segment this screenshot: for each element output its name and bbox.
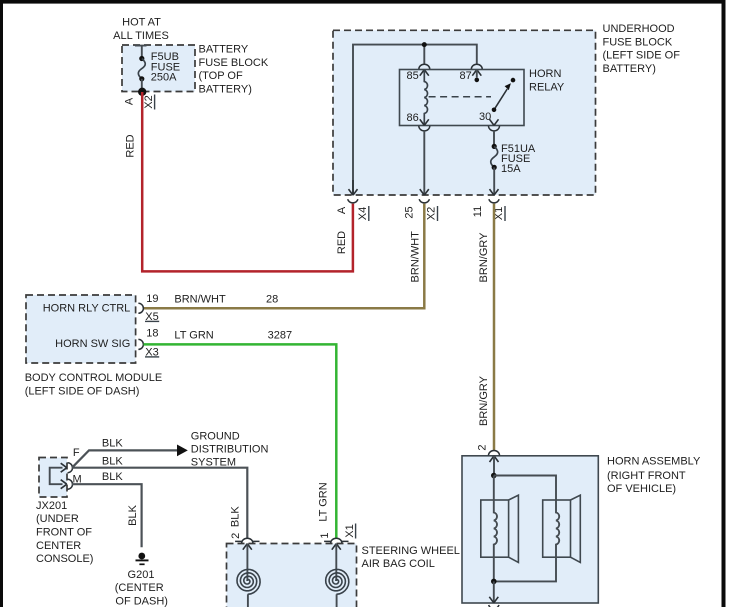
- value label F5UB FUSE 250A: [151, 51, 180, 84]
- svg-text:BRN/WHT: BRN/WHT: [409, 231, 421, 283]
- svg-text:85: 85: [407, 70, 419, 82]
- svg-text:HORN SW SIG: HORN SW SIG: [55, 338, 130, 350]
- value label F51UA FUSE 15A: [501, 143, 536, 175]
- connector cap pin 1: [324, 538, 348, 543]
- svg-text:30: 30: [479, 111, 491, 123]
- arrow pin 86 (down): [420, 119, 429, 125]
- svg-text:87: 87: [460, 70, 472, 82]
- horn 2: [497, 495, 581, 581]
- svg-text:BLK: BLK: [102, 456, 123, 468]
- svg-text:X1: X1: [344, 524, 356, 537]
- fuse F5UB: [138, 56, 145, 88]
- wire LT GRN from BCM pin 18 to air bag coil X1: [144, 344, 337, 538]
- svg-text:G201: G201: [128, 569, 155, 581]
- pin X5 label: [145, 311, 159, 323]
- junction dot bottom: [491, 579, 497, 585]
- arrow pin 1 (up): [332, 544, 341, 550]
- connector arc X3: [138, 339, 143, 349]
- battery feed terminal: [135, 46, 147, 59]
- connector cup below X4: [348, 199, 358, 203]
- svg-text:X4: X4: [357, 207, 369, 220]
- arrow exit X2 (down): [420, 189, 429, 195]
- label underhood fuse block: [603, 23, 681, 75]
- svg-text:AIR BAG COIL: AIR BAG COIL: [362, 558, 435, 570]
- arrow pin 30 (down): [490, 119, 499, 125]
- relay actuation dashed line: [429, 96, 491, 98]
- wire into coil 2: [246, 544, 248, 581]
- pin X3 label: [145, 346, 159, 358]
- connector cup below X1: [489, 199, 499, 203]
- svg-text:CONSOLE): CONSOLE): [36, 553, 93, 565]
- label STEERING WHEEL AIR BAG COIL: [362, 545, 460, 570]
- arrow pin 87: [472, 70, 481, 76]
- svg-text:BODY CONTROL MODULE: BODY CONTROL MODULE: [25, 372, 163, 384]
- svg-text:BLK: BLK: [102, 471, 123, 483]
- svg-text:HORN: HORN: [529, 68, 561, 80]
- fuse F51UA: [491, 144, 498, 195]
- arrow horn exit (down): [489, 597, 498, 603]
- svg-text:A: A: [336, 206, 348, 214]
- svg-text:HORN ASSEMBLY: HORN ASSEMBLY: [607, 455, 701, 467]
- svg-text:BRN/GRY: BRN/GRY: [478, 232, 490, 283]
- svg-text:BATTERY): BATTERY): [603, 63, 656, 75]
- pin X1 label: [344, 524, 356, 539]
- svg-text:DISTRIBUTION: DISTRIBUTION: [191, 443, 269, 455]
- connector cap pin 85: [419, 64, 430, 69]
- connector arc X5: [138, 303, 143, 313]
- svg-text:BLK: BLK: [229, 506, 241, 527]
- svg-text:BRN/WHT: BRN/WHT: [174, 293, 226, 305]
- wire BLK to G201: [72, 484, 142, 547]
- arrow exit X1 (down): [490, 189, 499, 195]
- wire below coil 1: [336, 594, 338, 607]
- svg-text:15A: 15A: [501, 163, 521, 175]
- svg-text:FUSE BLOCK: FUSE BLOCK: [199, 57, 269, 69]
- svg-text:LT GRN: LT GRN: [318, 482, 330, 521]
- relay NO contact dot: [511, 78, 516, 83]
- wire BLK to ground distribution: [72, 450, 177, 467]
- wire bus inside underhood block: [353, 45, 477, 195]
- wire BRN/GRY from X1 to horn assembly: [493, 204, 496, 451]
- frame top: [0, 0, 726, 4]
- splice bracket: [50, 468, 63, 485]
- svg-text:BLK: BLK: [102, 438, 123, 450]
- svg-text:BATTERY): BATTERY): [199, 84, 252, 96]
- frame left: [0, 0, 3, 607]
- BCM box: [26, 295, 136, 363]
- svg-text:OF DASH): OF DASH): [115, 596, 168, 607]
- wire pin 30 to fuse: [493, 130, 495, 146]
- node X2 junction dot: [138, 88, 146, 96]
- wire into coil 1: [335, 544, 337, 581]
- svg-text:X2: X2: [426, 207, 438, 220]
- label HORN RELAY: [529, 68, 565, 93]
- svg-text:(CENTER: (CENTER: [115, 582, 164, 594]
- label BODY CONTROL MODULE: [25, 372, 163, 397]
- arrow pin M: [61, 480, 67, 489]
- underhood fuse block box: [333, 30, 596, 195]
- svg-text:ALL TIMES: ALL TIMES: [113, 30, 169, 42]
- svg-text:3287: 3287: [268, 329, 292, 341]
- arrow pin 2 (up): [243, 544, 252, 550]
- wire pin 86 to X2 exit: [423, 130, 425, 194]
- frame right: [722, 0, 726, 607]
- svg-text:RELAY: RELAY: [529, 81, 565, 93]
- svg-text:HORN RLY CTRL: HORN RLY CTRL: [43, 303, 131, 315]
- horn 1: [481, 476, 519, 582]
- svg-text:STEERING WHEEL: STEERING WHEEL: [362, 545, 460, 557]
- label HOT AT ALL TIMES: [113, 17, 169, 42]
- wire BLK to air bag coil pin 2: [72, 468, 247, 539]
- connector arc F: [68, 463, 73, 473]
- svg-text:HOT AT: HOT AT: [122, 17, 161, 29]
- svg-text:JX201: JX201: [36, 500, 67, 512]
- junction dot top: [491, 473, 497, 479]
- horn assembly box: [462, 456, 598, 603]
- svg-text:(LEFT SIDE OF: (LEFT SIDE OF: [603, 50, 681, 62]
- svg-text:(RIGHT FRONT: (RIGHT FRONT: [607, 470, 686, 482]
- pin X2 label: [143, 95, 155, 110]
- coil spiral 1: [326, 569, 349, 594]
- wire RED from battery fuse block to underhood X4: [142, 92, 353, 271]
- connector cup below pin 30: [489, 126, 500, 131]
- connector cup below pin 86: [419, 126, 430, 131]
- arrow pin 85: [420, 70, 429, 76]
- svg-text:RED: RED: [336, 231, 348, 254]
- wire to ground exit: [493, 581, 495, 602]
- svg-text:(UNDER: (UNDER: [36, 513, 79, 525]
- svg-text:(TOP OF: (TOP OF: [199, 70, 243, 82]
- svg-text:FUSE BLOCK: FUSE BLOCK: [603, 36, 673, 48]
- svg-text:F: F: [73, 447, 80, 459]
- svg-text:19: 19: [146, 293, 158, 305]
- battery fuse block box: [122, 45, 195, 92]
- arrow horn pin 2 (up): [490, 456, 499, 462]
- label G201: [115, 569, 168, 607]
- ground G201: [136, 553, 149, 565]
- svg-text:18: 18: [146, 327, 158, 339]
- pin X4 label: [357, 206, 369, 221]
- connector cap pin 87: [471, 64, 482, 69]
- connector arc M: [68, 479, 73, 489]
- connector cap horn pin 2: [489, 451, 500, 456]
- svg-text:GROUND: GROUND: [191, 430, 240, 442]
- wire BRN/WHT from X2 to BCM pin 19: [144, 204, 425, 309]
- coil spiral 2: [237, 569, 260, 594]
- relay coil: [424, 70, 427, 126]
- JX201 box: [39, 458, 67, 498]
- relay U1 box: [400, 70, 525, 126]
- svg-text:86: 86: [407, 112, 419, 124]
- arrow to ground distribution system: [177, 445, 188, 457]
- pin X1 label: [493, 206, 505, 221]
- svg-text:OF VEHICLE): OF VEHICLE): [607, 483, 676, 495]
- svg-text:LT GRN: LT GRN: [174, 329, 213, 341]
- relay switch arm: [492, 83, 511, 112]
- pin 87 stationary contact: [475, 70, 480, 83]
- wire branch to horn 2: [494, 476, 556, 501]
- svg-text:BLK: BLK: [127, 504, 139, 525]
- pin X2 label: [426, 206, 438, 221]
- junction dot: [422, 42, 427, 47]
- connector cap pin 2: [235, 538, 259, 543]
- svg-text:1: 1: [319, 532, 331, 538]
- svg-text:28: 28: [266, 293, 278, 305]
- label battery fuse block: [199, 44, 269, 96]
- svg-text:CENTER: CENTER: [36, 540, 81, 552]
- label HORN ASSEMBLY: [607, 455, 701, 495]
- svg-text:(LEFT SIDE OF DASH): (LEFT SIDE OF DASH): [25, 386, 140, 398]
- svg-text:A: A: [124, 97, 136, 105]
- svg-text:11: 11: [472, 206, 484, 217]
- arrow pin F: [61, 463, 67, 472]
- svg-text:25: 25: [404, 206, 416, 218]
- connector cup below horn box: [489, 605, 499, 607]
- label GROUND DISTRIBUTION SYSTEM: [191, 430, 269, 468]
- wire pin 2 to junction: [493, 456, 495, 476]
- svg-text:2: 2: [476, 444, 488, 450]
- svg-text:RED: RED: [125, 134, 137, 157]
- label JX201: [36, 500, 93, 565]
- svg-text:250A: 250A: [151, 72, 177, 84]
- svg-text:BATTERY: BATTERY: [199, 44, 249, 56]
- svg-text:FRONT OF: FRONT OF: [36, 527, 92, 539]
- wire below coil 2: [247, 594, 249, 607]
- svg-text:SYSTEM: SYSTEM: [191, 456, 236, 468]
- svg-text:UNDERHOOD: UNDERHOOD: [603, 23, 675, 35]
- svg-text:2: 2: [230, 533, 242, 539]
- connector cup below X2: [419, 199, 429, 203]
- svg-text:X2: X2: [143, 95, 155, 108]
- arrow exit X4 (down): [349, 180, 358, 195]
- air bag coil box: [227, 544, 357, 607]
- svg-text:BRN/GRY: BRN/GRY: [478, 375, 490, 426]
